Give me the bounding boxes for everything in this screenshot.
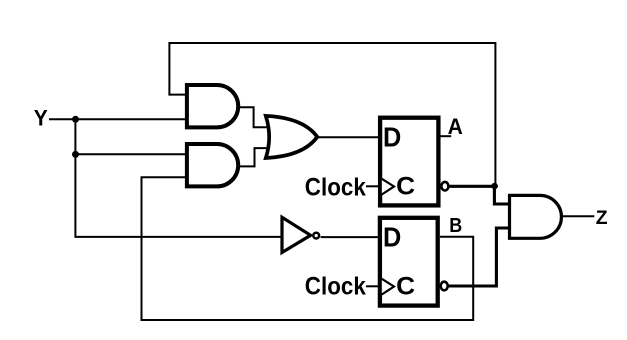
node junction dot at Q1' feedback	[491, 183, 498, 190]
wire FF1 Q' (thick) to junction then down to AND3 upper input	[449, 186, 510, 204]
wire AND3 output to Z	[562, 215, 595, 217]
svg-text:B: B	[449, 214, 462, 237]
FF1 Q' bubble	[441, 182, 448, 191]
AND gate G5 (output)	[510, 195, 562, 238]
wire Clock lead to FF1	[366, 185, 378, 187]
D flip-flop FF2 body	[380, 218, 438, 306]
wire FF2 Q' (thick) right and up to AND3 lower input	[448, 228, 510, 286]
wire AND1 output to OR upper input	[238, 107, 268, 127]
wire vertical Y branch	[74, 119, 76, 154]
svg-text:C: C	[396, 273, 415, 301]
svg-text:A: A	[448, 114, 463, 139]
AND gate G1 (upper left)	[187, 85, 238, 127]
wire Clock lead to FF2	[366, 285, 378, 287]
wire Y input to AND1 lower input	[49, 118, 186, 120]
FF1 clock triangle	[382, 179, 394, 195]
AND gate G2 (lower left)	[187, 144, 238, 186]
wire inverter output to FF2 D input	[321, 236, 379, 238]
wire top feedback from node at Q1' up and across to AND1 upper input	[169, 43, 495, 184]
wire OR output to FF1 D input	[317, 136, 379, 138]
svg-text:Clock: Clock	[305, 174, 367, 202]
D flip-flop FF1 body	[380, 118, 438, 206]
svg-text:D: D	[383, 121, 401, 152]
wire net B feedback: FF2 Q output right, down, bottom run left, up to AND2 lower input	[142, 177, 474, 320]
wire FF1 Q output stub to label A	[440, 135, 451, 137]
inverter G4 output bubble	[313, 233, 319, 239]
node junction dot on Y at upper branch	[72, 116, 79, 123]
OR gate G3	[266, 116, 318, 158]
svg-text:Clock: Clock	[305, 273, 367, 301]
svg-text:D: D	[383, 221, 401, 252]
inverter G4 triangle	[282, 217, 311, 252]
wire AND2 output to OR lower input	[238, 148, 267, 166]
wire Y branch to AND2 upper input	[75, 153, 187, 155]
svg-text:Z: Z	[596, 207, 608, 229]
FF2 Q' bubble	[441, 282, 448, 291]
svg-text:Y: Y	[34, 105, 48, 130]
svg-text:C: C	[396, 173, 415, 201]
wire Y branch down and right to inverter input	[75, 154, 281, 237]
node junction dot on Y at lower branch	[72, 151, 79, 158]
FF2 clock triangle	[382, 279, 394, 295]
